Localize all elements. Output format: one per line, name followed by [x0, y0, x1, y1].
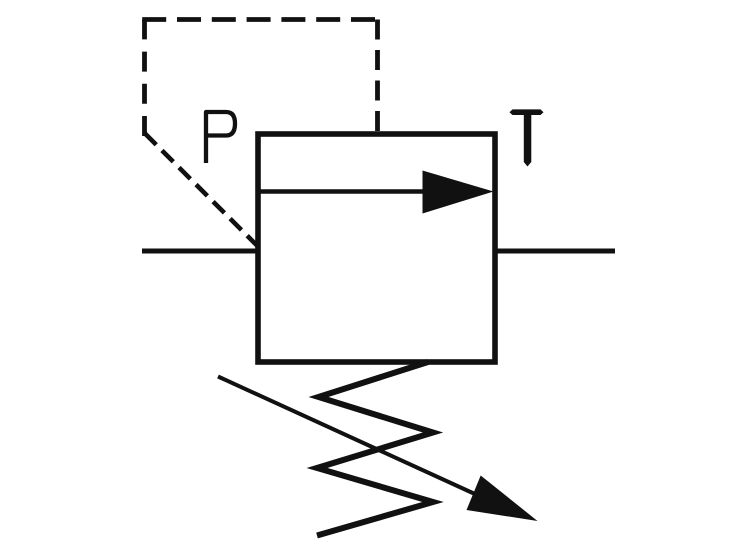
left port line P	[142, 249, 258, 254]
valve body box	[258, 134, 495, 362]
pilot line dashed left vertical	[142, 20, 147, 137]
flow arrow head	[423, 171, 494, 214]
adjustment arrow head	[467, 476, 538, 522]
label T	[510, 109, 544, 166]
pilot line dashed diagonal	[145, 134, 259, 248]
flow arrow shaft	[258, 189, 428, 194]
label P	[206, 112, 235, 163]
pilot line dashed right vertical	[375, 20, 380, 132]
right port line T	[495, 249, 615, 254]
spring zigzag	[317, 362, 433, 536]
pilot line dashed top horizontal	[142, 17, 377, 22]
adjustment arrow shaft	[218, 377, 476, 495]
